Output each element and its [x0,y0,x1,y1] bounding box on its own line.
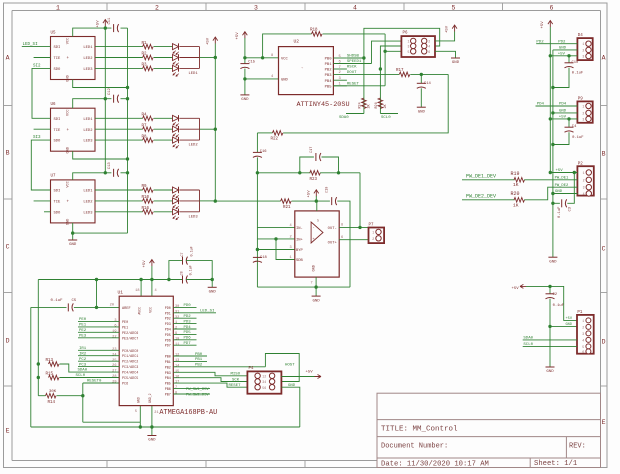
junction LED2 on +5V bus [214,128,217,131]
svg-text:A: A [602,55,606,62]
LED diode LED2 element 3 [173,137,179,143]
svg-text:+5V: +5V [559,116,567,120]
svg-text:1: 1 [56,4,60,11]
wire AREF to +5V rail [96,280,98,308]
svg-text:7: 7 [311,282,313,286]
junction LED1 on +5V bus [214,56,217,59]
svg-text:PD2: PD2 [165,318,171,322]
net PD4 wire to P9 pin1 [536,105,578,107]
wire SCK P6 pin3 to PB2 [380,46,401,114]
svg-text:4: 4 [428,45,430,49]
+5V symbol U2 [244,32,246,39]
LED1 output bus bar [199,47,201,69]
svg-text:E: E [602,419,606,426]
connector D4 box [577,38,592,60]
svg-text:D: D [6,338,10,345]
junction PB2 [379,67,382,70]
junction R18 riser [261,56,264,59]
capacitor C18 [253,256,262,258]
svg-text:R18: R18 [310,28,318,32]
svg-text:C: C [6,244,10,251]
svg-text:SDO: SDO [54,140,62,144]
svg-text:LED3: LED3 [189,215,199,219]
junction C10 gnd [551,86,554,89]
wire GND to D4 pin2 [553,49,578,51]
svg-text:SDA0: SDA0 [339,116,349,120]
svg-text:GND: GND [67,75,71,81]
svg-text:PC6: PC6 [122,383,128,387]
svg-text:PE2/ADC6: PE2/ADC6 [122,331,138,336]
resistor R3 [95,67,143,69]
resistor R18 [263,34,312,58]
LED diode LED3 element 1 [173,187,179,193]
svg-text:PC1/ADC1: PC1/ADC1 [122,354,138,359]
svg-text:R23: R23 [310,178,318,182]
svg-text:GND: GND [452,61,460,65]
junction GND P9 [551,111,554,114]
wire IN- from C16 line [257,226,294,228]
svg-text:4: 4 [264,380,266,384]
junction PB0 [362,56,365,59]
capacitor C15 [244,58,246,64]
svg-text:SHDSB: SHDSB [347,55,360,59]
svg-text:B: B [6,150,10,157]
ground symbol U1 [151,427,153,436]
svg-text:LED2: LED2 [83,129,93,133]
VCC rail U7 wire [73,173,112,180]
LED3 output bus bar [199,190,201,212]
LED diode LED3 element 3 [173,209,179,215]
svg-text:3: 3 [582,332,584,336]
junction R15 [37,376,40,379]
wire PB5 RESET to P4 pin5 [173,383,247,387]
svg-text:C11: C11 [108,17,112,25]
wire SDB jog [276,239,295,260]
resistor R8 [95,139,143,141]
wire P6 pin6 to ground [435,51,456,58]
svg-text:R7: R7 [142,124,148,128]
svg-text:GND_2: GND_2 [148,393,152,403]
svg-text:+5V: +5V [556,169,564,173]
LED diode LED2 element 1 [173,115,179,121]
LED anode +5V vertical bus [214,44,216,201]
svg-text:3: 3 [254,4,258,11]
svg-text:GND: GND [148,439,156,443]
wire PB3 MISO to P4 pin1 [173,372,247,376]
svg-text:GND: GND [281,78,289,82]
VCC rail U6 wire [73,99,112,109]
capacitor C4 [568,119,570,127]
P4 pin circles [255,373,260,378]
svg-text:2: 2 [582,325,584,329]
svg-text:C5: C5 [72,299,77,303]
junction U1 GND pin5 [139,425,142,428]
svg-text:BYP: BYP [296,249,304,253]
svg-text:PE0: PE0 [122,321,128,325]
svg-text:VCC: VCC [67,109,71,115]
svg-text:C: C [602,246,606,253]
svg-text:C18: C18 [260,256,268,260]
svg-text:R14: R14 [48,401,56,405]
resistor R16 [95,211,143,213]
ground symbol amp [315,287,317,296]
svg-text:+5V: +5V [306,371,314,375]
svg-text:GND: GND [418,110,426,114]
svg-text:PB5: PB5 [325,85,333,89]
svg-text:+5V: +5V [143,260,147,268]
svg-text:C10: C10 [572,61,580,65]
resistor R14 [46,393,57,398]
svg-text:PD6: PD6 [165,339,171,343]
GND vertical bus left [127,28,129,233]
svg-text:PD4: PD4 [559,103,567,107]
svg-text:C17: C17 [310,147,314,153]
svg-text:GND: GND [69,243,77,247]
svg-text:R3: R3 [142,64,148,68]
input coupling vertical line C16 [256,133,258,153]
svg-text:C7: C7 [181,252,185,256]
wire reset lower rail [83,421,141,423]
resistor R23 [257,172,310,174]
svg-text:PW_SW2_D5V: PW_SW2_D5V [186,393,210,397]
junction SDB tap [274,237,277,240]
GND right vertical bus [552,50,554,249]
capacitor C11 [113,24,115,32]
svg-text:E: E [6,428,10,435]
svg-text:LED2: LED2 [189,144,199,148]
svg-text:21: 21 [154,411,158,415]
svg-text:PD2: PD2 [558,40,566,44]
svg-text:2: 2 [155,4,159,11]
svg-text:PC3/ADC3: PC3/ADC3 [122,365,138,370]
junction C7 loop [167,278,170,281]
svg-text:1: 1 [408,40,410,44]
+5V symbol right bus [549,21,551,28]
junction C2 gnd [548,325,551,328]
svg-text:3: 3 [408,45,410,49]
junction +5V D4 [549,54,552,57]
junction GND P2 [551,192,554,195]
svg-text:+5V: +5V [566,317,573,321]
junction VCC rail U6 left [104,97,107,100]
svg-text:SDA0: SDA0 [523,337,533,341]
wire C2 down to ground [549,326,551,367]
resistor R26 pullup SCL0 [378,98,383,108]
+5V symbol U1 [151,260,153,267]
svg-text:C16: C16 [260,150,268,154]
amp op-amp triangle [311,222,323,243]
svg-text:C12: C12 [108,88,112,96]
svg-text:4: 4 [353,4,357,11]
ground symbol P6 [451,57,460,59]
U6 middle input stub wire [34,128,51,130]
capacitor C13 [113,169,115,177]
junction C4 gnd [551,143,554,146]
wire +5V to P2 pin1 [550,172,577,174]
wire +5V over to P1 pin1 [526,286,577,320]
junction +5V P9 [549,117,552,120]
junction C10 tap [567,54,570,57]
wire P6 pin2 to +5V [435,32,455,41]
svg-text:PC5/ADC5: PC5/ADC5 [122,376,138,381]
svg-text:GND: GND [313,265,317,271]
svg-text:SDI: SDI [54,118,61,122]
svg-text:4: 4 [582,338,584,342]
svg-text:U6: U6 [51,103,57,107]
svg-text:2: 2 [264,375,266,379]
U5 middle input stub wire [34,57,51,59]
svg-text:PB4: PB4 [325,80,333,84]
wire +5V to D4 pin3 [550,55,577,57]
junction amp ground [314,285,317,288]
capacitor C5 on AREF [31,306,67,308]
wire R20 jog to P2 pin3 [524,187,577,200]
svg-text:LED1: LED1 [83,46,93,50]
svg-text:D: D [602,339,606,346]
wire LED2 to +5V bus [200,128,216,130]
net label SCL0 at R26 [380,113,398,115]
net label LED_SI [22,46,51,48]
svg-text:P7: P7 [369,224,375,228]
junction VCC rail U7 left [104,171,107,174]
svg-text:RESET0: RESET0 [87,380,102,384]
junction C16 to R23 [256,171,259,174]
frame row ticks left [4,105,13,107]
wire P4 pin6 GND return [281,387,299,427]
svg-text:+5V: +5V [236,32,240,40]
svg-text:0.1uF: 0.1uF [190,246,194,256]
IC U1 box [119,296,173,405]
svg-text:R8: R8 [142,135,148,139]
net label SDA0 at R24 [346,113,364,115]
svg-text:RESET: RESET [347,82,360,86]
P6 pin circles [411,38,416,43]
svg-text:5: 5 [317,220,319,224]
svg-text:R2: R2 [142,53,148,57]
ground symbol P1 [546,366,555,368]
svg-text:TIE: TIE [54,129,62,133]
svg-text:27: 27 [112,370,116,374]
svg-text:3: 3 [583,186,585,190]
svg-text:28: 28 [112,375,116,379]
LED diode LED3 element 2 [173,198,179,204]
svg-text:PE0: PE0 [79,318,87,322]
resistor R17 [399,72,410,77]
GND return U6 [73,151,128,159]
svg-text:C8: C8 [180,271,184,275]
svg-text:SPEED1: SPEED1 [347,60,362,64]
svg-text:PC0/ADC0: PC0/ADC0 [122,349,138,354]
net DOUT wire PB3 to R17 [333,73,399,75]
svg-text:C2: C2 [553,293,558,297]
frame column ticks bottom [106,461,108,468]
svg-text:0.1uF: 0.1uF [572,136,584,140]
svg-text:IR2: IR2 [79,353,87,357]
svg-text:R24: R24 [359,102,363,108]
svg-text:R22: R22 [271,138,279,142]
svg-text:IR1: IR1 [79,347,87,351]
resistor R22 [272,131,283,136]
resistor R13 [49,362,60,367]
svg-text:C4: C4 [572,125,577,129]
svg-text:GND: GND [559,47,567,51]
svg-text:P6: P6 [403,32,409,36]
svg-text:18: 18 [135,289,139,293]
svg-text:GND: GND [312,299,320,303]
LED diode LED1 element 1 [173,44,179,50]
U1 GND pin stubs [139,406,141,423]
svg-text:PB0: PB0 [325,58,333,62]
junction C3 tap [573,171,576,174]
svg-text:PE3/ADC7: PE3/ADC7 [122,336,138,341]
svg-text:RSCK: RSCK [347,66,357,70]
svg-text:R1: R1 [142,42,148,46]
LED driver IC U7 box [51,180,96,223]
resistor R19 [462,179,515,181]
LED driver IC U5 box [51,37,96,80]
svg-text:VCC: VCC [67,38,71,44]
LED diode LED1 element 3 [173,65,179,71]
junction GND U6 [126,157,129,160]
svg-text:0.1uF: 0.1uF [51,299,64,303]
svg-text:20: 20 [110,304,114,308]
svg-text:PB4: PB4 [165,377,171,381]
LED diode LED1 element 2 [173,55,179,61]
svg-text:PB2: PB2 [325,69,333,73]
svg-text:GND: GND [546,370,554,374]
wire PB2 HOST net to P4 pin4 [173,366,265,368]
resistor R24 pullup SDA0 [362,98,367,108]
svg-text:Document Number:: Document Number: [381,442,448,450]
svg-text:8: 8 [341,224,343,228]
svg-text:C14: C14 [424,82,432,86]
net label SHDSB [347,57,364,59]
svg-text:AREF: AREF [122,307,131,311]
svg-text:SCL0: SCL0 [381,116,391,120]
junction R17 C14 [420,73,423,76]
resistor R4 [95,117,143,119]
svg-text:DOUT: DOUT [347,71,357,75]
junction GND U5 [126,86,129,89]
svg-text:PD3: PD3 [184,320,192,324]
svg-text:R21: R21 [283,206,291,210]
svg-text:R17: R17 [396,69,404,73]
resistor R10 [95,200,143,202]
svg-text:ATTINY45-20SU: ATTINY45-20SU [297,101,350,109]
svg-text:SCK: SCK [232,378,240,382]
svg-text:LED_SI: LED_SI [23,43,39,47]
frame column ticks top [106,3,108,11]
net PD2 wire to D4 pin1 [536,43,577,45]
svg-text:29: 29 [112,381,116,385]
LED2 output bus bar [199,118,201,140]
connector P4 box [247,371,281,393]
wire C5 to ground rail [30,307,32,427]
svg-text:Date: 11/30/2020 10:17 AM: Date: 11/30/2020 10:17 AM [381,461,489,469]
svg-text:PB0: PB0 [195,353,203,357]
junction VCC rail U6 right [126,97,129,100]
svg-text:P4: P4 [249,367,255,371]
wire R17 down to R22 line [283,74,448,132]
junction C17 right [337,171,340,174]
junction C3 gnd [551,202,554,205]
svg-text:GND: GND [137,397,141,403]
svg-text:SDA0: SDA0 [78,369,88,373]
net SCL0 wire to P1 [523,345,577,347]
svg-text:D4: D4 [578,34,584,38]
svg-text:U2: U2 [294,38,300,44]
svg-text:+5V: +5V [207,37,211,45]
svg-text:PB3: PB3 [165,372,171,376]
ground symbol right bus [552,249,554,258]
junction bus to amp rail [214,199,217,202]
svg-text:PW_DE2: PW_DE2 [555,184,569,188]
connector P6 box [401,36,435,57]
capacitor C14 [420,74,422,83]
svg-text:GND: GND [555,190,563,194]
svg-text:P1: P1 [577,311,583,315]
svg-text:+5V: +5V [512,287,520,291]
svg-text:5: 5 [452,4,456,11]
svg-text:SDI: SDI [54,190,61,194]
title block outline [377,393,601,467]
wire OUT- to P7 pin1 [339,226,368,228]
svg-text:R16: R16 [142,207,150,211]
wire IN+ from C16 line [257,238,294,240]
U1 AVCC pin stub [140,280,142,297]
junction C15 top [243,56,246,59]
connector P1 box [577,315,594,354]
svg-text:IN+: IN+ [296,239,304,243]
title block Sheet divider [529,458,531,468]
LED driver IC U6 box [51,108,96,151]
svg-text:PB3: PB3 [325,74,333,78]
+5V rail amp [215,200,280,202]
resistor R9 [95,189,143,191]
svg-text:GND: GND [209,291,217,295]
junction AREF [95,306,98,309]
svg-text:C15: C15 [248,61,256,65]
svg-text:SDB: SDB [296,259,304,263]
amp bottom rail [257,286,350,288]
connector P9 box [577,101,592,122]
svg-text:PW_DE1_DEV: PW_DE1_DEV [466,173,496,179]
wire MISO P6 pin1 to PB1 [372,41,402,63]
junction GND U7 [71,231,74,234]
junction ground caps [211,278,214,281]
svg-text:GND: GND [288,384,296,388]
capacitor C12 [113,95,115,103]
svg-text:SDI: SDI [54,46,61,50]
svg-text:5: 5 [582,345,584,349]
capacitor C2 [549,286,551,293]
svg-text:C3: C3 [569,206,573,211]
pull-up supply vertical [37,280,39,396]
svg-text:6: 6 [341,236,343,240]
svg-text:+5V: +5V [97,20,101,28]
svg-text:PE1: PE1 [79,324,87,328]
svg-text:LED3: LED3 [83,140,93,144]
svg-text:LED_SI: LED_SI [200,310,214,314]
D4 pin circles [586,41,591,46]
wire GND to P2 pin4 [553,193,578,195]
net PW_SW1_D5V stub [173,388,210,390]
svg-text:IN-: IN- [296,227,303,231]
svg-text:AVCC: AVCC [137,307,141,315]
svg-text:U1: U1 [118,289,124,295]
capacitor C16 [253,151,262,153]
svg-text:TIE: TIE [54,57,62,61]
